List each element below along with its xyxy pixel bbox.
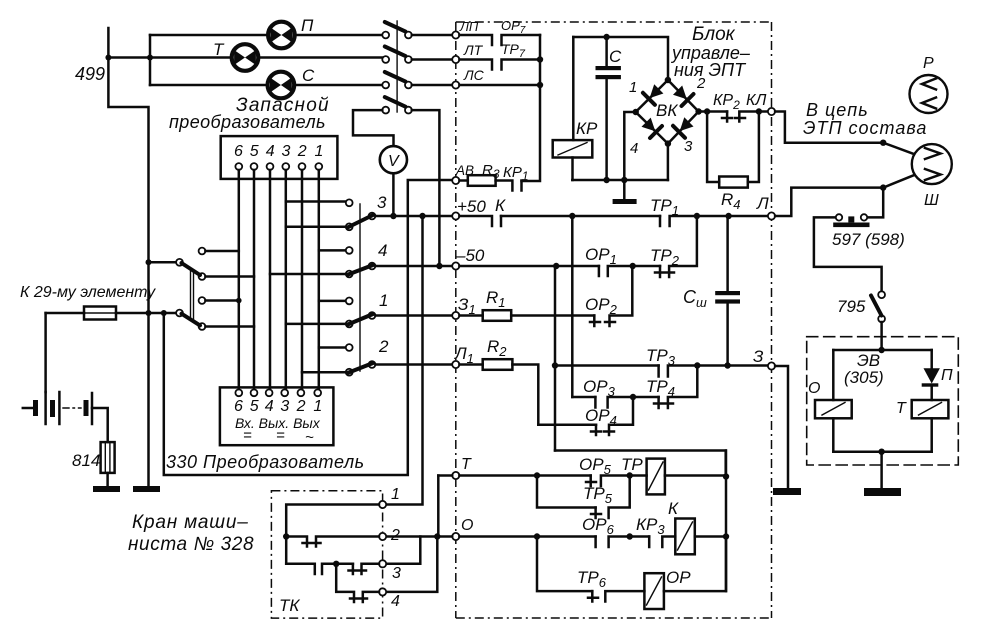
svg-text:6: 6 bbox=[234, 398, 243, 415]
svg-text:С: С bbox=[302, 66, 315, 85]
svg-text:преобразователь: преобразователь bbox=[169, 112, 326, 132]
svg-text:2: 2 bbox=[696, 75, 706, 92]
relay TR bbox=[647, 459, 665, 495]
resistor R4 parallel branch bbox=[707, 112, 759, 183]
line Z (to terminal Z) bbox=[555, 364, 659, 367]
svg-text:П: П bbox=[301, 16, 314, 35]
svg-text:Кран маши–: Кран маши– bbox=[132, 512, 249, 533]
wire stub row3 upper bbox=[286, 200, 346, 203]
terminal T bbox=[452, 472, 459, 479]
line L1 with R2 bbox=[452, 361, 459, 368]
svg-text:Л: Л bbox=[756, 194, 769, 213]
relay OR bbox=[644, 573, 664, 609]
svg-text:2: 2 bbox=[378, 337, 389, 356]
wire stub row1 upper bbox=[319, 300, 346, 303]
svg-text:4: 4 bbox=[266, 143, 275, 160]
lamp T bbox=[213, 40, 258, 71]
box 330 converter bbox=[220, 387, 334, 445]
EV(305) dashed box bbox=[807, 337, 959, 465]
svg-text:5: 5 bbox=[250, 143, 259, 160]
node transfer sw feed bbox=[146, 259, 152, 265]
svg-text:ЭТП состава: ЭТП состава bbox=[803, 118, 927, 138]
wire lamp switch row4 to -50 drop bbox=[412, 110, 440, 263]
svg-text:З: З bbox=[753, 347, 764, 366]
node TK1 riser junction bbox=[419, 213, 425, 219]
contact KR3 bbox=[649, 537, 675, 548]
svg-text:6: 6 bbox=[234, 143, 243, 160]
contact TR6 bbox=[588, 591, 644, 601]
wire row1 pivot to Z1 terminal bbox=[375, 314, 452, 317]
wire bridge right corner bbox=[699, 110, 728, 113]
svg-text:ния ЭПТ: ния ЭПТ bbox=[674, 60, 747, 80]
svg-text:Т: Т bbox=[213, 40, 225, 59]
selector switch row3 (+50) bbox=[346, 193, 387, 230]
svg-text:4: 4 bbox=[378, 241, 387, 260]
bold bus -50 down bbox=[554, 266, 557, 451]
wire lamp switch row1 to LP bbox=[412, 34, 453, 37]
svg-text:ЛС: ЛС bbox=[463, 67, 485, 83]
svg-text:Р: Р bbox=[923, 55, 934, 72]
svg-text:С: С bbox=[609, 47, 622, 66]
wire voltmeter to +50 bbox=[392, 173, 395, 216]
connector R (spare) bbox=[910, 75, 948, 113]
ground of Z wire bbox=[773, 488, 801, 495]
node fuse line / 499 wire bbox=[146, 310, 152, 316]
contact OR6 bbox=[596, 537, 650, 548]
SECTION-RIGHT bbox=[775, 55, 958, 496]
terminal L bbox=[768, 212, 775, 219]
lamp P bbox=[268, 16, 314, 48]
wire vertical terminal 4 bbox=[269, 170, 272, 389]
TK line 3 contacts bbox=[286, 564, 353, 574]
contact OR5 bbox=[586, 476, 647, 487]
svg-text:330 Преобразователь: 330 Преобразователь bbox=[166, 452, 365, 472]
capacitor Csh bbox=[726, 216, 729, 291]
TK terminal 3 bbox=[379, 560, 386, 567]
line OR3/TR4 bbox=[572, 396, 595, 399]
svg-text:=: = bbox=[276, 427, 285, 444]
svg-text:V: V bbox=[388, 153, 400, 170]
branch TR6 bbox=[537, 537, 592, 592]
svg-text:1: 1 bbox=[629, 79, 637, 96]
svg-text:В цепь: В цепь bbox=[806, 100, 869, 120]
svg-text:К: К bbox=[495, 196, 506, 215]
wire lamp switch row3 to LC bbox=[412, 84, 453, 87]
bus +50 down to OR3 row bbox=[571, 216, 574, 397]
wire row4 pivot to -50 terminal bbox=[375, 265, 452, 268]
svg-text:Т: Т bbox=[896, 400, 907, 417]
svg-text:3: 3 bbox=[377, 193, 387, 212]
SECTION-MIDDLE bbox=[452, 18, 801, 618]
svg-text:О: О bbox=[461, 517, 473, 534]
bottom wire of KR/C bbox=[572, 179, 668, 182]
wire riser +50 to TK1 bbox=[386, 216, 423, 505]
wire to transfer pivot1 bbox=[149, 261, 177, 264]
selector switch row2 (L1) bbox=[346, 337, 389, 376]
lamp C bbox=[268, 66, 315, 98]
relay KR bbox=[572, 37, 575, 140]
riser to TK4 bbox=[386, 537, 437, 592]
wire Z to ground bbox=[775, 366, 788, 487]
contact OR1 bbox=[599, 266, 660, 276]
TK terminal 4 bbox=[379, 588, 386, 595]
TK terminal 2 bbox=[379, 533, 386, 540]
relay K bbox=[675, 519, 695, 555]
terminal O bbox=[452, 533, 459, 540]
svg-text:1: 1 bbox=[379, 291, 388, 310]
svg-text:1: 1 bbox=[391, 486, 400, 503]
terminal Z bbox=[768, 362, 775, 369]
svg-text:2: 2 bbox=[296, 398, 306, 415]
svg-text:2: 2 bbox=[297, 143, 307, 160]
top wire of control unit bbox=[573, 37, 668, 80]
svg-text:4: 4 bbox=[391, 593, 400, 610]
connector Sh bbox=[912, 144, 952, 184]
relay T of EV bbox=[912, 400, 949, 418]
svg-text:(305): (305) bbox=[844, 368, 884, 387]
box spare converter bbox=[221, 136, 338, 179]
line +50 bbox=[452, 212, 459, 219]
SECTION-LEFT bbox=[20, 16, 452, 555]
contact OR7 bbox=[459, 35, 540, 45]
wire L to Sh lower pin bbox=[775, 176, 913, 217]
wire lamp bus vertical bbox=[522, 35, 541, 181]
svg-text:КР: КР bbox=[576, 119, 598, 138]
svg-text:814: 814 bbox=[72, 451, 100, 470]
svg-text:ВК: ВК bbox=[656, 101, 678, 120]
diode D of EV bbox=[930, 350, 933, 368]
wire lamp row P bbox=[150, 34, 383, 37]
node 330 loop start bbox=[161, 310, 167, 316]
svg-text:5: 5 bbox=[250, 398, 259, 415]
wire vertical terminal 3 bbox=[285, 170, 288, 389]
svg-text:Т: Т bbox=[461, 456, 472, 473]
wire stub row4 lower bbox=[270, 273, 346, 276]
contact TR1 bbox=[660, 216, 768, 226]
right bus of relays bbox=[725, 451, 728, 592]
selector switch row1 (Z1) bbox=[346, 291, 389, 327]
svg-text:ОР: ОР bbox=[666, 568, 691, 587]
svg-text:3: 3 bbox=[280, 398, 289, 415]
line -50 bbox=[452, 262, 459, 269]
wire lamp switch row2 to LT bbox=[412, 58, 453, 61]
EV top wire bbox=[833, 349, 931, 352]
fuse on K29 line bbox=[46, 307, 177, 320]
svg-text:3: 3 bbox=[392, 565, 401, 582]
resistor R3 bbox=[459, 179, 467, 182]
wire 330 loop bbox=[164, 180, 453, 475]
transfer switch (two-pole) bbox=[176, 248, 205, 330]
svg-text:ЛП: ЛП bbox=[459, 19, 479, 34]
contact K bbox=[459, 216, 501, 226]
svg-text:4: 4 bbox=[265, 398, 274, 415]
svg-text:Блок: Блок bbox=[692, 24, 736, 45]
svg-text:~: ~ bbox=[305, 429, 314, 446]
wire KL to Sh upper pin bbox=[775, 112, 912, 154]
wire stub row3 lower bbox=[286, 226, 346, 229]
svg-text:К 29-му элементу: К 29-му элементу bbox=[20, 284, 156, 301]
relay O of EV bbox=[832, 350, 835, 400]
contact KR1 bbox=[496, 181, 522, 191]
ground under 499 wire bbox=[133, 486, 160, 492]
line Z1 with R1 bbox=[452, 312, 459, 319]
capacitor C bbox=[605, 37, 608, 66]
TK internal wiring bbox=[286, 505, 379, 564]
svg-text:ЛТ: ЛТ bbox=[463, 42, 484, 58]
svg-text:–50: –50 bbox=[455, 246, 485, 265]
TK line 4 contact bbox=[336, 564, 379, 602]
wire vertical terminal 6 bbox=[238, 170, 241, 389]
svg-text:=: = bbox=[243, 427, 252, 444]
svg-text:3: 3 bbox=[282, 143, 291, 160]
TK contact on line 2 bbox=[286, 537, 379, 547]
contact TR4 bbox=[654, 366, 697, 409]
wire lamp feeder bbox=[108, 35, 150, 85]
wire vertical terminal 5 bbox=[253, 170, 256, 389]
lamp knife switch group bbox=[382, 21, 411, 114]
line OR4 bbox=[538, 423, 596, 426]
diode 2 arm top-right bbox=[682, 94, 694, 106]
svg-text:499: 499 bbox=[75, 64, 105, 84]
terminal LC bbox=[452, 81, 459, 88]
TK terminal 1 bbox=[379, 501, 386, 508]
svg-text:Ш: Ш bbox=[924, 192, 939, 209]
wire lamp row C bbox=[150, 84, 383, 87]
svg-text:К: К bbox=[668, 499, 679, 518]
wire battery riser to fuse line bbox=[44, 313, 47, 392]
SECTION-BOTTOM bbox=[271, 451, 729, 619]
switch 795 bbox=[878, 291, 885, 298]
svg-text:4: 4 bbox=[630, 140, 638, 157]
node voltmeter junction bbox=[390, 213, 396, 219]
gang link of selector bbox=[359, 204, 361, 371]
wire LC row bbox=[459, 84, 540, 87]
contact TR2 bbox=[655, 216, 697, 277]
wire O line bbox=[386, 535, 596, 538]
svg-text:ТР: ТР bbox=[621, 455, 643, 474]
ground stem under bridge bbox=[623, 180, 626, 199]
contact TR7 bbox=[459, 60, 540, 70]
wire 499 vertical bbox=[108, 28, 148, 488]
wire lamp switch row4 left to voltmeter bbox=[353, 110, 394, 146]
svg-text:О: О bbox=[808, 380, 820, 397]
diode 4 arm left-bottom bbox=[650, 126, 662, 138]
terminals of spare converter bbox=[235, 163, 322, 170]
contact OR2 bbox=[590, 266, 632, 326]
node lamp sw row4 drop on -50 bbox=[436, 263, 442, 269]
EV ground bbox=[880, 452, 883, 488]
wire lamp row T bbox=[150, 56, 383, 59]
svg-text:2: 2 bbox=[390, 527, 400, 544]
diode 3 arm bottom-right bbox=[673, 126, 685, 138]
svg-text:ТК: ТК bbox=[279, 596, 300, 615]
svg-text:КЛ: КЛ bbox=[746, 92, 766, 109]
wire vertical terminal 2 bbox=[301, 170, 304, 389]
battery GB bbox=[23, 392, 108, 442]
terminal AB bbox=[452, 177, 459, 184]
riser O-line to TK3 bbox=[386, 537, 420, 564]
contact KR2 bbox=[722, 112, 768, 122]
wire stub row2 lower bbox=[302, 371, 346, 374]
wire bridge bottom to bottom wire bbox=[667, 144, 670, 180]
wire stub row4 upper bbox=[319, 249, 346, 252]
ground under battery fuse bbox=[93, 486, 120, 492]
svg-text:597 (598): 597 (598) bbox=[832, 230, 905, 249]
svg-text:3: 3 bbox=[684, 138, 693, 155]
svg-text:1: 1 bbox=[313, 398, 322, 415]
TK dashed box bbox=[271, 491, 382, 618]
branch TR5 bbox=[537, 476, 596, 508]
wire vertical terminal 1 bbox=[318, 170, 321, 389]
svg-text:ниста № 328: ниста № 328 bbox=[128, 534, 254, 555]
terminal LT bbox=[452, 56, 459, 63]
EV bottom wire bbox=[833, 450, 931, 453]
wire row3 pivot to +50 terminal bbox=[375, 215, 452, 218]
wire T line bbox=[438, 474, 590, 477]
svg-text:+50: +50 bbox=[457, 197, 486, 216]
wire stub row1 lower bbox=[286, 323, 346, 326]
svg-text:П: П bbox=[941, 367, 953, 384]
contact TR3 bbox=[659, 366, 768, 377]
wire bridge left corner to ground bbox=[624, 112, 635, 180]
svg-text:795: 795 bbox=[837, 297, 866, 316]
diode 1 arm left-top bbox=[643, 93, 655, 105]
wire transfer contacts to matrix bbox=[205, 251, 254, 327]
terminal KL bbox=[768, 108, 775, 115]
bridge VK bbox=[629, 75, 706, 157]
riser T to O crossing bbox=[437, 476, 440, 537]
wire row2 pivot to L1 terminal bbox=[375, 363, 452, 366]
contact TR5 bbox=[591, 476, 630, 519]
terminal LP bbox=[452, 31, 459, 38]
contact OR3 bbox=[595, 397, 658, 408]
dashed border of EPT control unit bbox=[456, 22, 772, 618]
contact 597(598) coupling bbox=[867, 188, 883, 218]
contact OR4 bbox=[591, 397, 633, 435]
voltmeter V bbox=[380, 146, 407, 173]
node junction 499/T-row bbox=[105, 55, 111, 61]
fuse 814 bbox=[72, 442, 115, 486]
selector switch row4 (-50) bbox=[346, 241, 388, 277]
svg-text:1: 1 bbox=[315, 143, 324, 160]
branch wire to TR relay bus bbox=[555, 451, 726, 477]
wire stub row2 upper bbox=[319, 346, 346, 349]
SECTION-MATRIX bbox=[239, 170, 453, 505]
